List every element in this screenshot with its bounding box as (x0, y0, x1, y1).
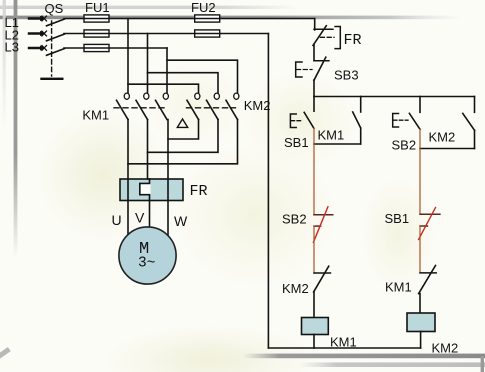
fuse FU1 pole3 (84, 44, 109, 51)
frame bottom-right dark band (243, 354, 485, 359)
svg-text:SB3: SB3 (334, 68, 359, 83)
wire V to FR (148, 120, 150, 180)
wire control top rail (314, 96, 475, 98)
frame bottom-right light band (300, 362, 485, 367)
svg-text:SB1: SB1 (284, 135, 309, 150)
wire L1 supply stub with arrow (29, 17, 40, 20)
svg-text:KM2: KM2 (432, 341, 459, 356)
contact KM1 aux NO (360, 97, 362, 113)
contact KM1 NC interlock (branch2) (420, 272, 436, 274)
wire U through FR to motor (127, 120, 129, 235)
wire KM1 coil to bottom rail (313, 335, 315, 349)
frame left light band (3, 0, 6, 130)
wire orange branch2 upper (419, 129, 421, 214)
wire to KM1 coil (313, 292, 315, 318)
svg-text:SB1: SB1 (385, 211, 410, 226)
wire L3 supply stub with arrow (29, 47, 40, 50)
svg-text:V: V (135, 210, 145, 226)
svg-text:FU2: FU2 (191, 0, 216, 15)
wire L1 row (64, 18, 315, 20)
fuse FU2 pole2 (195, 30, 220, 37)
wire orange branch1 upper (313, 128, 315, 215)
svg-text:SB2: SB2 (282, 212, 307, 227)
svg-text:KM1: KM1 (330, 335, 357, 350)
wire W through FR to motor (167, 120, 169, 236)
wire bottom rail (268, 347, 420, 349)
svg-text:KM1: KM1 (82, 108, 109, 123)
KM1 linkage dashed (114, 107, 164, 109)
pushbutton SB1 NO (304, 112, 314, 128)
switch QS linkage dashed (51, 21, 53, 76)
frame top dark band (0, 16, 462, 20)
KM2 linkage dashed (187, 107, 236, 109)
wire SB3 to rail (313, 80, 315, 97)
wire tap L2 to KM2 pole2 (148, 73, 219, 93)
wire L1 to FR contact (314, 19, 316, 30)
wire L1 drop to KM1 pole1 (127, 19, 129, 94)
switch QS blade pole2 (47, 34, 65, 41)
svg-text:3~: 3~ (138, 256, 155, 272)
wire FR to SB3 (313, 45, 315, 61)
contactor KM2 main blades (187, 100, 199, 119)
svg-text:KM1: KM1 (318, 128, 345, 143)
wire L2 drop to KM1 pole2 (147, 34, 149, 94)
pushbutton SB2 NO (409, 113, 420, 129)
wire KM2 coil to bottom rail (420, 332, 422, 349)
svg-text:FU1: FU1 (85, 0, 110, 15)
contact KM2 aux NO (474, 97, 476, 113)
wire L3 drop to KM1 pole3 (166, 48, 168, 93)
wire KM2 pole2 bottom to V (148, 120, 219, 153)
wire KM2 pole3 bottom to U (128, 120, 238, 164)
switch QS blade pole3 (47, 49, 65, 56)
switch QS handle bar (40, 78, 63, 80)
frame top light band (0, 6, 300, 9)
svg-text:W: W (174, 213, 188, 229)
wire tap L1 to KM2 pole1 (128, 84, 199, 93)
contactor KM1 main blades (117, 100, 129, 119)
wire orange branch1 lower (313, 226, 315, 273)
wire L3 row (64, 47, 167, 49)
svg-text:QS: QS (45, 1, 64, 16)
frame right-edge tick (481, 356, 484, 372)
wire drop to SB2 (419, 97, 421, 113)
svg-text:FR: FR (344, 32, 362, 49)
fuse FU1 pole2 (84, 30, 109, 37)
frame left dark band (14, 0, 18, 258)
svg-text:SB2: SB2 (392, 138, 417, 153)
FR heater notch (141, 184, 151, 194)
contactor KM1 main contact terminals (circles) (124, 93, 239, 99)
fuse FU1 pole1 (84, 15, 109, 22)
wire KM2 pole1 bottom to W (168, 120, 199, 140)
svg-text:FR: FR (190, 183, 208, 200)
motor M 3~ (119, 227, 176, 284)
wire L2 row (64, 33, 268, 35)
svg-text:KM2: KM2 (244, 98, 271, 113)
FR NC contact (control) (314, 28, 333, 30)
wire join branch2 (420, 148, 475, 150)
coil KM2 (407, 313, 435, 332)
svg-text:KM2: KM2 (429, 130, 456, 145)
wire to KM2 coil (419, 294, 421, 313)
switch QS blade pole1 (47, 19, 65, 26)
pushbutton SB3 NC (314, 60, 329, 62)
svg-text:L3: L3 (5, 40, 19, 55)
pushbutton SB1 NC (branch2) (420, 213, 440, 215)
delta symbol (177, 119, 187, 127)
svg-text:KM2: KM2 (282, 281, 309, 296)
svg-text:U: U (112, 212, 122, 228)
frame bottom-left smudge (0, 347, 11, 359)
wire V FR to motor (149, 201, 151, 229)
wire drop to SB1 (313, 97, 315, 112)
svg-text:KM1: KM1 (385, 280, 412, 295)
coil KM1 (302, 318, 329, 335)
wire tap L3 to KM2 pole3 (167, 60, 238, 93)
wire orange branch2 lower (419, 226, 421, 273)
contact KM2 NC interlock (branch1) (314, 272, 331, 274)
thermal relay FR box (120, 179, 183, 201)
wire join branch1 (314, 143, 361, 145)
pushbutton SB2 NC (branch1) (314, 214, 333, 216)
wire L2 supply stub with arrow (29, 32, 40, 35)
wire left rail (L2 to bottom) (267, 34, 269, 349)
fuse FU2 pole1 (195, 15, 220, 22)
